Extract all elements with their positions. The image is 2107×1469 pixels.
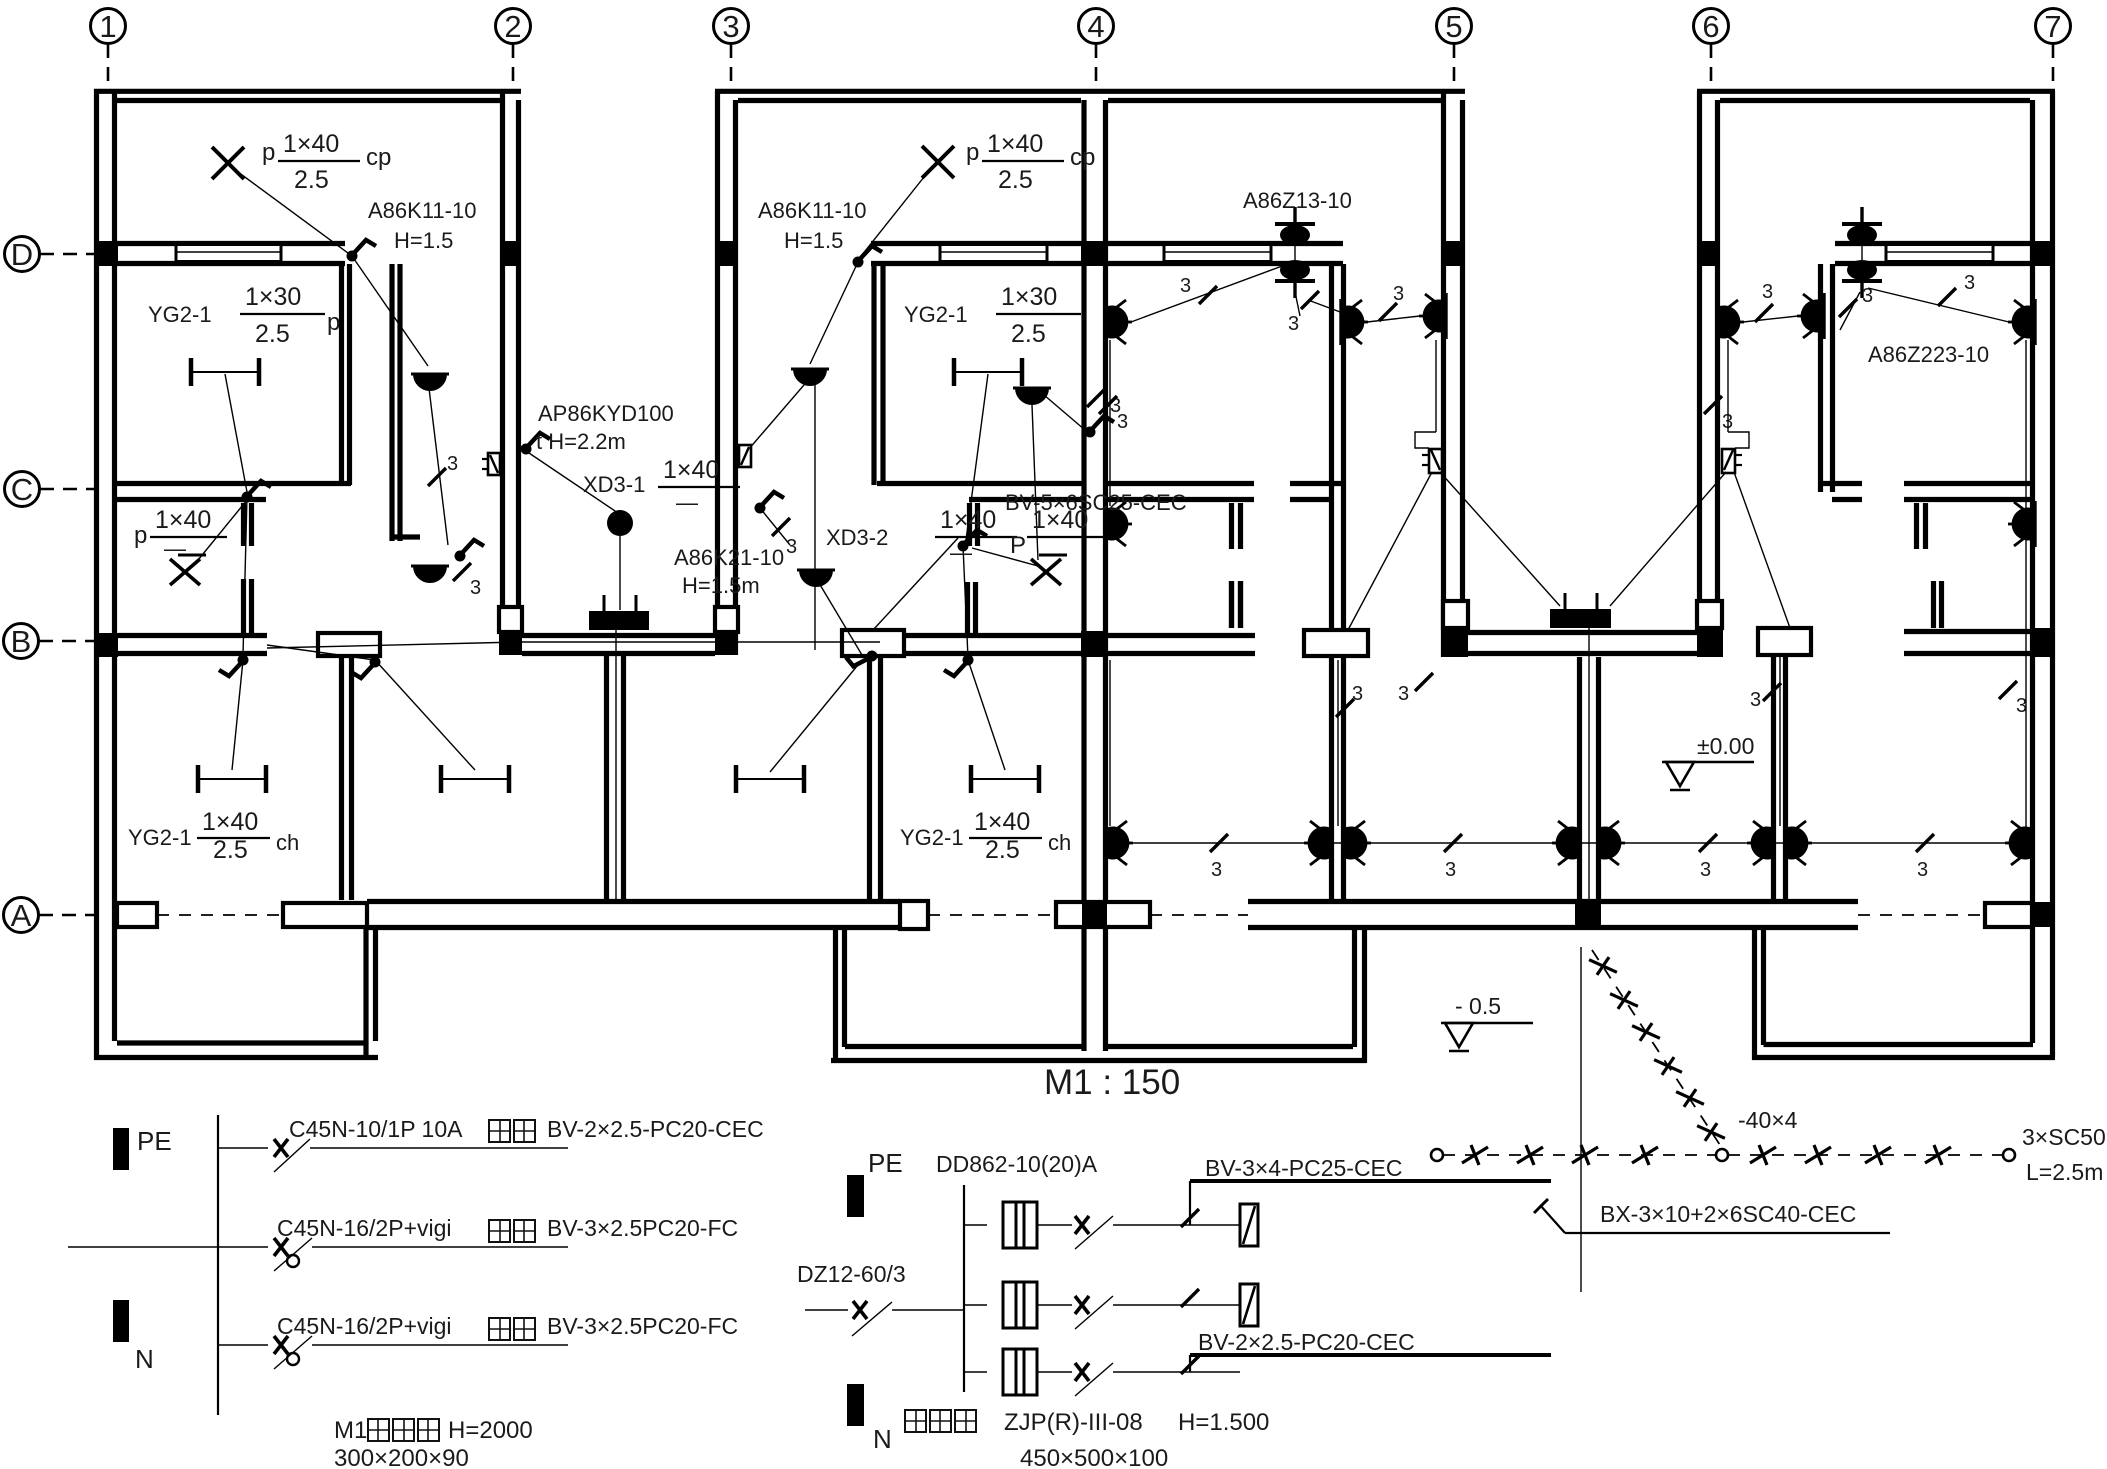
svg-text:1×40: 1×40 bbox=[974, 808, 1030, 836]
grid line 4 bubble bbox=[1079, 9, 1114, 44]
svg-text:C45N-10/1P 10A: C45N-10/1P 10A bbox=[289, 1116, 463, 1142]
wall lamp u4 left bbox=[1717, 299, 1744, 345]
wall: B row unit2 band bbox=[904, 633, 1084, 638]
column: D/2 bbox=[500, 241, 521, 266]
svg-text:DZ12-60/3: DZ12-60/3 bbox=[797, 1261, 906, 1287]
svg-text:3: 3 bbox=[786, 536, 797, 558]
svg-text:H=1.5: H=1.5 bbox=[394, 228, 453, 253]
svg-text:YG2-1: YG2-1 bbox=[904, 302, 968, 327]
wall: middle wing east bbox=[1352, 928, 1357, 1047]
slash3 u3 a bbox=[1199, 286, 1217, 304]
grid line 5 bubble bbox=[1437, 9, 1472, 44]
svg-text:cp: cp bbox=[366, 144, 391, 171]
grid line C leader bbox=[40, 488, 94, 491]
svg-text:A86Z13-10: A86Z13-10 bbox=[1243, 188, 1352, 213]
svg-text:N: N bbox=[135, 1344, 154, 1374]
hall I-beam unit2 left bbox=[736, 765, 804, 793]
grid line C bubble bbox=[5, 472, 40, 507]
pendant lamp unit4 bbox=[1842, 207, 1882, 298]
svg-text:ch: ch bbox=[1048, 830, 1071, 855]
wall: C row unit3 bbox=[1105, 481, 1254, 486]
svg-text:3×SC50: 3×SC50 bbox=[2022, 1124, 2106, 1150]
wall: A row piece with column4 bbox=[1056, 902, 1150, 927]
wall lamp u4 mid bbox=[1797, 293, 1824, 339]
corridor slash3 bbox=[1699, 834, 1717, 852]
svg-text:3: 3 bbox=[1762, 281, 1773, 303]
window: D row unit3 bbox=[1164, 245, 1271, 262]
column: D/4 bbox=[1081, 241, 1108, 266]
wall: B row unit3 band bbox=[1108, 633, 1255, 638]
socket AP86KYD100 unit1 bbox=[482, 453, 500, 475]
bedroom1 I-beam unit1 bbox=[191, 358, 259, 386]
wall: unit3 jamb lower bbox=[1229, 581, 1234, 628]
svg-text:ZJP(R)-III-08: ZJP(R)-III-08 bbox=[1004, 1409, 1143, 1436]
level -0.5 bbox=[1441, 1023, 1533, 1051]
svg-text:3: 3 bbox=[1117, 411, 1128, 433]
wall: top exterior unit4 bbox=[1697, 89, 2055, 94]
slash3 u4 e bbox=[1999, 681, 2017, 699]
svg-text:2.5: 2.5 bbox=[985, 836, 1020, 864]
wall: D row unit3 band bbox=[1105, 241, 1343, 246]
svg-text:2.5: 2.5 bbox=[213, 836, 248, 864]
corridor lamp pair c bbox=[1552, 820, 1579, 866]
meter row 3 bbox=[964, 1371, 987, 1373]
wall: B row unit1 bbox=[118, 633, 267, 638]
feeder bottom line bbox=[1190, 1353, 1551, 1357]
fan wires u4 socket bbox=[1610, 472, 1726, 606]
wall: B row piece x318 bbox=[318, 633, 380, 656]
A row dashed axis4 bbox=[1858, 914, 1985, 916]
svg-text:YG2-1: YG2-1 bbox=[128, 825, 192, 850]
svg-text:2.5: 2.5 bbox=[255, 320, 290, 348]
svg-text:L=2.5m: L=2.5m bbox=[2026, 1159, 2103, 1185]
svg-text:3: 3 bbox=[1180, 275, 1191, 297]
wall lamp unit2 mid bbox=[1013, 388, 1051, 405]
svg-text:2.5: 2.5 bbox=[998, 166, 1033, 194]
svg-text:6: 6 bbox=[1702, 9, 1719, 44]
wall: left wing bottom bbox=[94, 1055, 378, 1060]
wall lamp unit1 upper bbox=[411, 374, 449, 391]
svg-text:3: 3 bbox=[1393, 283, 1404, 305]
wall: unit1 bath east bbox=[241, 579, 246, 633]
svg-text:PE: PE bbox=[868, 1148, 903, 1178]
svg-text:A86K11-10: A86K11-10 bbox=[368, 198, 476, 223]
wall: unit4 jamb bbox=[1914, 503, 1919, 549]
wires u3 lamps bbox=[1131, 265, 1285, 322]
slash3 u4 c bbox=[1938, 288, 1956, 306]
switch A86K11-10 unit1 bbox=[347, 240, 377, 262]
svg-text:1×40: 1×40 bbox=[663, 456, 719, 484]
svg-text:XD3-2: XD3-2 bbox=[826, 525, 888, 550]
wall: unit3 right bbox=[1441, 91, 1446, 657]
slash3 u4 a bbox=[1755, 304, 1773, 322]
feeder vertical bbox=[1189, 1181, 1191, 1225]
corridor lamp a bbox=[1106, 820, 1133, 866]
corridor lamp pair b bbox=[1304, 820, 1331, 866]
corridor wire row bbox=[1117, 842, 2021, 844]
bath X lamp unit1 bbox=[170, 555, 206, 585]
meter row 2 bbox=[964, 1304, 987, 1306]
M1 diagram PE bar bbox=[113, 1128, 129, 1170]
fan wires u3 socket to boxes bbox=[1348, 472, 1432, 630]
grid line B leader bbox=[39, 640, 94, 643]
A row dashed axis3 bbox=[1150, 914, 1248, 916]
grounding riser line bbox=[1580, 947, 1582, 1292]
column: A/4 bbox=[1082, 902, 1107, 927]
wall: unit1 kitchen west bbox=[389, 264, 394, 541]
svg-text:YG2-1: YG2-1 bbox=[148, 302, 212, 327]
wall: A row stub2 bbox=[283, 903, 367, 927]
svg-text:H=2000: H=2000 bbox=[448, 1417, 533, 1444]
M1 branch3 bbox=[218, 1344, 268, 1346]
wall lamp unit2 upper bbox=[791, 369, 829, 386]
meter diagram PE bar bbox=[847, 1175, 864, 1217]
slash3 u4 b bbox=[1839, 299, 1857, 317]
svg-text:p: p bbox=[966, 139, 979, 166]
svg-text:300×200×90: 300×200×90 bbox=[334, 1445, 469, 1469]
wall: unit1 right (stairwell west) bbox=[500, 91, 505, 655]
wall lamp u3 left bbox=[1105, 299, 1132, 345]
column: D/7 bbox=[2030, 241, 2055, 266]
svg-text:2: 2 bbox=[504, 9, 521, 44]
lamp X cp unit2 bbox=[922, 146, 954, 178]
svg-text:-40×4: -40×4 bbox=[1738, 1107, 1798, 1133]
column: B/4 bbox=[1081, 631, 1108, 657]
socket u4 on left wall bbox=[1722, 449, 1742, 473]
column: B stair west bbox=[499, 632, 522, 655]
wire drop u2 wall bbox=[1109, 660, 1111, 826]
svg-text:A: A bbox=[11, 898, 32, 933]
row1 to feeder bbox=[1158, 1224, 1240, 1226]
wall: C row unit4 corner piece bbox=[1820, 481, 1862, 486]
svg-text:3: 3 bbox=[1398, 683, 1409, 705]
svg-text:A86K21-10: A86K21-10 bbox=[674, 545, 784, 570]
stair landing caps unit1/2 bbox=[499, 607, 522, 632]
wall: A row cap x900 bbox=[900, 901, 928, 929]
hall I-beam unit2 right bbox=[971, 765, 1039, 793]
svg-text:7: 7 bbox=[2044, 9, 2061, 44]
grid line 3 bubble bbox=[714, 9, 749, 44]
wall: unit2 bath door jamb bbox=[967, 503, 972, 546]
corridor slash3 bbox=[1210, 834, 1228, 852]
svg-text:3: 3 bbox=[447, 453, 458, 475]
svg-text:p: p bbox=[134, 522, 147, 549]
svg-text:3: 3 bbox=[722, 9, 739, 44]
wall: D row unit4 band bbox=[1835, 241, 2032, 246]
wall: stub above B unit3 bbox=[1229, 581, 1234, 628]
svg-text:t H=2.2m: t H=2.2m bbox=[536, 429, 626, 454]
wall: unit3 inner corner bbox=[1329, 264, 1334, 657]
wire path around socket u3 bbox=[1435, 340, 1437, 432]
column: B stair east bbox=[715, 632, 738, 655]
level +-0.00 bbox=[1662, 762, 1754, 790]
svg-text:1×30: 1×30 bbox=[245, 283, 301, 311]
svg-text:p: p bbox=[262, 139, 275, 166]
svg-text:5: 5 bbox=[1445, 9, 1462, 44]
column: D/6 bbox=[1697, 241, 1720, 266]
t switch at socket bbox=[521, 433, 551, 455]
svg-text:1: 1 bbox=[99, 9, 116, 44]
stair2 flight lines bbox=[1588, 628, 1590, 900]
wall: top exterior unit1 bbox=[94, 89, 521, 94]
wall: right exterior gable bbox=[2030, 100, 2035, 1043]
wall: B row unit2 piece bbox=[842, 630, 904, 656]
wall: right wing bottom bbox=[1752, 1055, 2055, 1060]
wall lamp unit1 lower bbox=[411, 566, 449, 583]
wall: unit1 bedroom2 east bbox=[339, 264, 344, 485]
corridor slash3 bbox=[1444, 834, 1462, 852]
wall: stub above B unit4 right bbox=[1931, 581, 1936, 628]
svg-text:H=1.5: H=1.5 bbox=[784, 228, 843, 253]
wall: middle wing west bbox=[833, 928, 838, 1063]
wall: C row unit4 bbox=[1904, 481, 2032, 486]
wall: middle wing bottom bbox=[831, 1058, 1366, 1063]
wire across landing1 bbox=[267, 642, 520, 648]
wire switch-walllamp unit1 bbox=[352, 256, 428, 366]
svg-text:BV-2×2.5-PC20-CEC: BV-2×2.5-PC20-CEC bbox=[1198, 1329, 1415, 1355]
switch A86K21-10 unit2 bbox=[755, 492, 785, 514]
grid line 7 leader bbox=[2052, 44, 2055, 90]
svg-text:D: D bbox=[11, 237, 33, 272]
svg-text:AP86KYD100: AP86KYD100 bbox=[538, 401, 674, 426]
wire: unit2 lamp drop bbox=[814, 378, 816, 650]
bath lamp P unit2 bbox=[1031, 555, 1067, 585]
wall: unit2/unit3 party wall bbox=[1081, 100, 1086, 1051]
switch mid unit1 + slash bbox=[455, 540, 485, 562]
wall: unit2 left (stairwell east) bbox=[715, 91, 720, 631]
grid line A leader bbox=[39, 914, 94, 917]
column: A/7 bbox=[2030, 902, 2054, 927]
grid line A bubble bbox=[4, 898, 39, 933]
wall: B row unit4 piece bbox=[1758, 628, 1811, 655]
svg-text:—: — bbox=[676, 490, 698, 515]
lamp XD3-1 bbox=[607, 510, 633, 536]
svg-text:±0.00: ±0.00 bbox=[1697, 733, 1754, 759]
svg-text:1×30: 1×30 bbox=[1001, 283, 1057, 311]
svg-text:N: N bbox=[873, 1424, 892, 1454]
corridor lamp e bbox=[2005, 820, 2032, 866]
stair2 caps bbox=[1443, 601, 1468, 628]
wire lamp-switch unit2 bbox=[858, 172, 928, 260]
grid line 5 leader bbox=[1453, 44, 1456, 90]
wire t to xd3-2 bbox=[873, 538, 958, 630]
svg-text:3: 3 bbox=[470, 577, 481, 599]
wall: unit2 bedroom2 west bbox=[871, 264, 876, 485]
wall: unit4 wall below B bbox=[1771, 656, 1776, 899]
grounding diagonal dashed bbox=[1592, 950, 1722, 1148]
svg-text:—: — bbox=[164, 536, 186, 561]
svg-text:B: B bbox=[11, 624, 32, 659]
svg-text:3: 3 bbox=[1352, 683, 1363, 705]
wall lamp u4 lower bbox=[2008, 501, 2035, 547]
svg-text:PE: PE bbox=[137, 1126, 172, 1156]
window: D row unit1 bbox=[176, 245, 281, 262]
svg-text:C: C bbox=[11, 472, 33, 507]
grid line 2 bubble bbox=[496, 9, 531, 44]
wall: right wing west bbox=[1752, 928, 1757, 1060]
svg-text:3: 3 bbox=[1288, 313, 1299, 335]
pendant lamp A86Z13-10 bbox=[1275, 207, 1315, 298]
distribution box M1 on landing bbox=[589, 611, 649, 630]
svg-text:H=1.5m: H=1.5m bbox=[682, 573, 760, 598]
meter caption bbox=[905, 1410, 926, 1432]
svg-text:- 0.5: - 0.5 bbox=[1455, 993, 1501, 1019]
wall: unit2 bath west bbox=[965, 582, 970, 633]
svg-text:450×500×100: 450×500×100 bbox=[1020, 1445, 1168, 1469]
row2 to feeder bbox=[1158, 1304, 1240, 1306]
switch under B rect unit2 bbox=[844, 643, 879, 673]
wall: left exterior gable bbox=[94, 89, 99, 1060]
wall: unit1 bath door jamb bbox=[241, 503, 246, 546]
wall lamp u3 mid bbox=[1341, 299, 1368, 345]
slash3 u3 d bbox=[1099, 396, 1117, 414]
column: A stair2 bbox=[1575, 902, 1601, 927]
socket unit2 bbox=[739, 445, 751, 467]
wire drop u4 wall bbox=[1779, 657, 1781, 826]
A row dashed axis1 bbox=[157, 914, 283, 916]
column: D/1 bbox=[94, 241, 118, 266]
svg-text:M1 : 150: M1 : 150 bbox=[1044, 1063, 1180, 1102]
wall: unit3 corner wall below B bbox=[1329, 657, 1334, 899]
svg-text:A86Z223-10: A86Z223-10 bbox=[1868, 342, 1989, 367]
wall: top exterior units2-3 bbox=[715, 89, 1465, 94]
column: B/1 bbox=[94, 633, 118, 657]
corridor lamp pair d bbox=[1747, 820, 1774, 866]
grid line D leader bbox=[40, 253, 94, 256]
column: B/5 bbox=[1441, 628, 1468, 657]
wires to XD3-1 bbox=[526, 451, 621, 515]
svg-text:BV-3×2.5PC20-FC: BV-3×2.5PC20-FC bbox=[547, 1215, 738, 1241]
svg-text:YG2-1: YG2-1 bbox=[900, 825, 964, 850]
svg-text:BV-3×4-PC25-CEC: BV-3×4-PC25-CEC bbox=[1205, 1155, 1403, 1181]
svg-text:3: 3 bbox=[1750, 689, 1761, 711]
wire B row to hall lamp2 bbox=[351, 657, 381, 679]
svg-text:—: — bbox=[950, 540, 972, 565]
wall: B row unit3 piece bbox=[1304, 630, 1368, 656]
stair1 flight lines bbox=[615, 630, 617, 900]
t switch unit2 bbox=[1085, 416, 1115, 438]
wall lamp u3 right bbox=[1419, 293, 1446, 339]
hall I-beam unit1 left bbox=[198, 765, 266, 793]
svg-text:p: p bbox=[327, 309, 340, 336]
grid line 6 leader bbox=[1710, 44, 1713, 90]
wall: stair2 flight walls bbox=[1577, 657, 1582, 900]
svg-text:M1: M1 bbox=[334, 1417, 367, 1444]
svg-text:BV-3×2.5PC20-FC: BV-3×2.5PC20-FC bbox=[547, 1313, 738, 1339]
svg-text:BV-5×6SC25-CEC: BV-5×6SC25-CEC bbox=[1005, 490, 1187, 515]
svg-text:1×40: 1×40 bbox=[940, 506, 996, 534]
wall: unit4 left bbox=[1697, 91, 1702, 601]
wall: B row stair2 band bbox=[1468, 630, 1697, 635]
svg-text:3: 3 bbox=[1917, 859, 1928, 881]
grid line 1 bubble bbox=[91, 9, 126, 44]
distribution box M2 on landing2 bbox=[1550, 609, 1611, 628]
meter bus bbox=[963, 1185, 965, 1392]
slash3 u3 c bbox=[1379, 303, 1397, 321]
grid line 7 bubble bbox=[2036, 9, 2071, 44]
wall: unit3 jamb bbox=[1229, 503, 1234, 549]
column: D/3 bbox=[715, 241, 738, 266]
slash3 u3 e bbox=[1415, 673, 1433, 691]
grid line 4 leader bbox=[1095, 44, 1098, 90]
wall: C row unit1 bbox=[117, 481, 351, 486]
wire walllamp-down unit1 bbox=[428, 380, 448, 545]
wall lamp unit2 lower bbox=[797, 570, 835, 587]
column: D/5 bbox=[1441, 241, 1465, 266]
meter row 1 bbox=[964, 1224, 987, 1226]
meter N bar bbox=[847, 1384, 864, 1426]
wall lamp u4 right bbox=[2008, 299, 2035, 345]
lamp X cp unit1 bbox=[212, 147, 244, 179]
grid line B bubble bbox=[4, 624, 39, 659]
wall: unit1 hall east bbox=[339, 656, 344, 900]
feeder top line bbox=[1190, 1179, 1551, 1183]
switch A86K11-10 unit2 bbox=[853, 246, 883, 268]
svg-text:1×40: 1×40 bbox=[155, 506, 211, 534]
grid line 2 leader bbox=[512, 44, 515, 90]
svg-text:4: 4 bbox=[1087, 9, 1104, 44]
window: D row unit4 bbox=[1886, 245, 1993, 262]
window: D row unit2 bbox=[940, 245, 1047, 262]
svg-text:2.5: 2.5 bbox=[1011, 320, 1046, 348]
M1 N bar bbox=[113, 1300, 129, 1342]
slash3 u4 d bbox=[1704, 396, 1722, 414]
slash3 drop bbox=[1336, 699, 1354, 717]
svg-text:BX-3×10+2×6SC40-CEC: BX-3×10+2×6SC40-CEC bbox=[1600, 1201, 1856, 1227]
svg-text:C45N-16/2P+vigi: C45N-16/2P+vigi bbox=[277, 1313, 452, 1339]
wall: A row main band right bbox=[1248, 899, 1858, 904]
wall lamp u3 lower bbox=[1105, 501, 1132, 547]
row3 to feeder bbox=[1158, 1371, 1240, 1373]
svg-text:1×40: 1×40 bbox=[987, 130, 1043, 158]
svg-text:3: 3 bbox=[1211, 859, 1222, 881]
svg-text:P: P bbox=[1010, 532, 1026, 559]
grounding horizontal dashed bbox=[1431, 1149, 1443, 1161]
svg-text:3: 3 bbox=[1445, 859, 1456, 881]
bedroom I-beam unit2 bbox=[954, 358, 1022, 386]
wire lamp-switch unit1 bbox=[238, 172, 352, 256]
wall: unit4 inner corner bbox=[1818, 264, 1823, 492]
svg-text:2.5: 2.5 bbox=[294, 166, 329, 194]
socket u3 on right wall bbox=[1422, 449, 1442, 473]
wall: A row piece right bbox=[1985, 903, 2032, 927]
switch bedroom2 unit1 bbox=[242, 481, 272, 503]
column: B/7 bbox=[2030, 628, 2055, 657]
svg-text:C45N-16/2P+vigi: C45N-16/2P+vigi bbox=[277, 1215, 452, 1241]
wall: D row unit1 band bbox=[117, 241, 345, 246]
svg-text:cp: cp bbox=[1070, 144, 1095, 171]
switch at B unit1 bbox=[219, 655, 249, 677]
wire drop u3 wall bbox=[1337, 660, 1339, 826]
wires u4 lamps bbox=[1743, 316, 1798, 322]
wall: left wing east bbox=[363, 928, 368, 1060]
svg-text:3: 3 bbox=[1964, 272, 1975, 294]
grid line 6 bubble bbox=[1694, 9, 1729, 44]
wall: stair1 flight walls bbox=[604, 656, 609, 900]
svg-text:1×40: 1×40 bbox=[202, 808, 258, 836]
svg-text:H=1.500: H=1.500 bbox=[1178, 1409, 1269, 1436]
wall: B row landing band bbox=[522, 633, 715, 638]
wall: C row unit2 bbox=[877, 481, 1084, 486]
switch bedroom2 unit2 bbox=[958, 530, 988, 552]
hall I-beam unit1 right bbox=[441, 765, 509, 793]
svg-text:3: 3 bbox=[1862, 285, 1873, 307]
M1 branch1 bbox=[218, 1147, 268, 1149]
svg-text:XD3-1: XD3-1 bbox=[583, 472, 645, 497]
corridor slash3 bbox=[1916, 834, 1934, 852]
svg-text:1×40: 1×40 bbox=[283, 130, 339, 158]
wall: unit2 hall east bbox=[867, 656, 872, 900]
